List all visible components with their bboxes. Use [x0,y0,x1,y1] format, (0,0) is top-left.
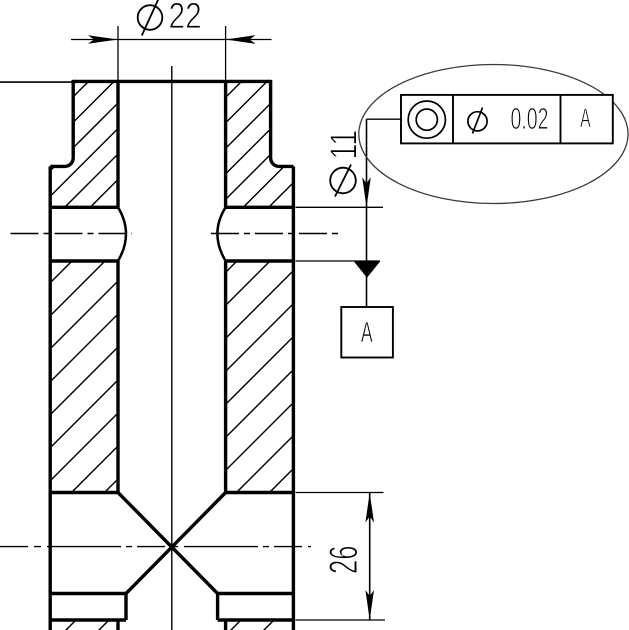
lower centerline [0,546,311,548]
hole centerline upper left [11,233,133,235]
svg-text:22: 22 [169,0,202,37]
svg-text:26: 26 [323,546,367,574]
left outer wall lower [49,166,52,630]
top edge [73,80,270,83]
part outline (thick) [50,80,293,630]
feature control frame [401,95,613,143]
dim 26 [296,493,386,621]
svg-text:0.02: 0.02 [511,103,549,136]
bore wall right [224,81,227,207]
dia11 label (rotated) [330,165,356,197]
lower band edges [50,592,126,595]
dim 22: extension lines [71,26,272,81]
svg-text:A: A [361,318,373,349]
extension lines right of part (hole edges) [296,207,384,261]
FCF leader [367,118,402,120]
bore wall left [116,81,119,207]
hole centerline upper right [211,233,338,235]
cross hole edges left [50,206,118,209]
cone diagonals [118,493,218,594]
datum box [341,307,393,358]
dim 22 arrows [88,35,118,44]
cone top edges [50,491,118,494]
thin projection line top-left [0,81,73,83]
svg-text:A: A [580,102,591,133]
ellipse balloon [359,65,628,204]
right outer wall lower [292,166,295,630]
datum triangle [354,261,381,278]
cross hole edges right [226,206,294,209]
drill bulges [118,207,126,261]
dia22 text [138,0,163,36]
right outer wall upper + fillet + ledge [271,80,294,166]
left outer wall upper + fillet + ledge [50,80,73,166]
vertical centerline [171,66,173,630]
